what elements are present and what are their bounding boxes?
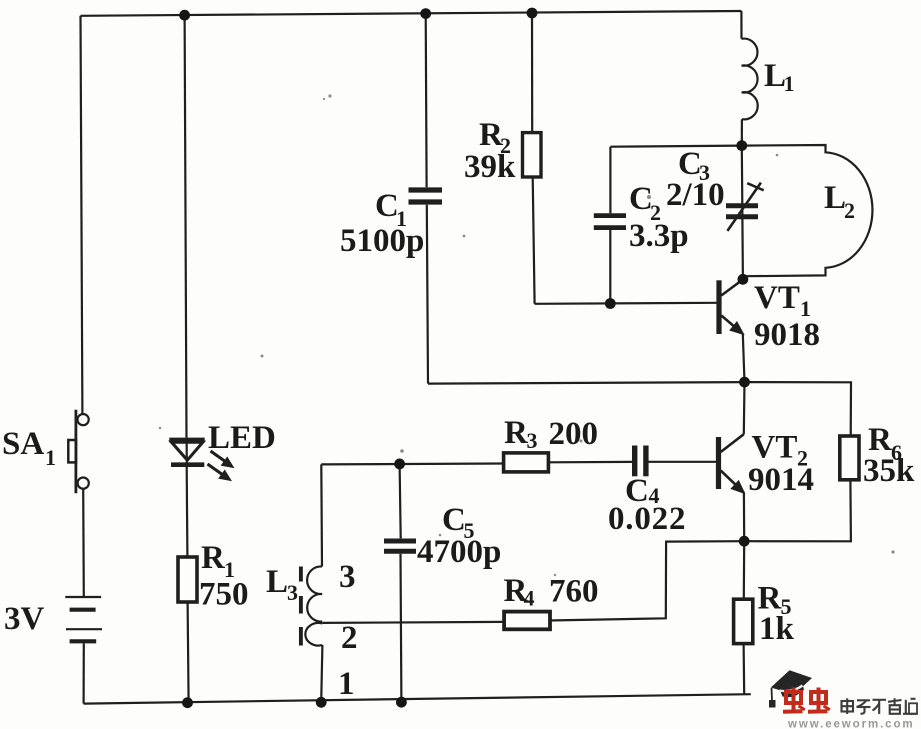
wire top rail corner to L1	[740, 11, 742, 39]
transistor VT2	[716, 382, 745, 493]
wire y146 line	[610, 146, 741, 147]
wire LED to R1	[186, 467, 189, 557]
svg-text:1: 1	[784, 71, 795, 96]
wire R3 to C4	[548, 461, 632, 464]
svg-text:2/10: 2/10	[666, 177, 725, 213]
svg-text:9018: 9018	[754, 317, 820, 353]
svg-text:760: 760	[549, 574, 599, 610]
watermark site name glyphs	[842, 698, 918, 714]
svg-text:VT: VT	[754, 280, 800, 316]
svg-text:2: 2	[844, 198, 855, 223]
battery B1 3V	[65, 597, 102, 641]
node R3 C5	[394, 459, 405, 470]
capacitor C1	[409, 190, 443, 202]
node rail R1	[182, 697, 193, 708]
svg-text:0.022: 0.022	[608, 501, 686, 537]
wire L3 bottom to rail	[321, 645, 322, 702]
wire top rail	[81, 11, 742, 16]
switch SA1	[68, 410, 88, 494]
wire tap2 line	[322, 622, 503, 623]
wire C2 top	[609, 147, 611, 214]
node base C2	[605, 298, 616, 309]
svg-text:1: 1	[45, 445, 56, 470]
resistor R4	[504, 612, 550, 630]
svg-text:39k: 39k	[464, 149, 516, 185]
loop antenna L2	[742, 145, 873, 279]
svg-text:200: 200	[549, 416, 599, 452]
wire left vertical upper	[81, 16, 83, 414]
watermark graduation cap	[769, 670, 812, 707]
resistor R6	[840, 436, 859, 480]
wire R6 bottom	[744, 480, 851, 542]
wire R1 to bottom rail	[188, 602, 189, 703]
svg-text:LED: LED	[208, 420, 276, 456]
resistor R5	[734, 599, 753, 643]
wire C4 to VT2 base	[649, 461, 717, 463]
wire L1 to node	[741, 119, 743, 145]
svg-text:R: R	[201, 540, 226, 576]
svg-text:1: 1	[338, 666, 355, 702]
node rail L3	[316, 697, 327, 708]
scan noise specks	[159, 94, 895, 576]
svg-text:5100p: 5100p	[340, 223, 424, 259]
node L1 bottom	[736, 140, 747, 151]
svg-text:3: 3	[339, 559, 356, 595]
wire R5 top	[743, 541, 746, 599]
svg-text:4700p: 4700p	[417, 534, 501, 570]
wire base line y303	[535, 303, 717, 304]
svg-text:C: C	[442, 502, 466, 538]
svg-text:35k: 35k	[863, 453, 915, 489]
svg-text:L: L	[266, 564, 288, 600]
svg-text:9014: 9014	[748, 462, 814, 498]
wire VT2 emitter down	[743, 493, 745, 542]
wire C1 branch vertical	[425, 14, 428, 188]
node rail C5	[396, 697, 407, 708]
svg-text:www.eeworm.com: www.eeworm.com	[787, 719, 915, 729]
node top rail R2	[527, 8, 538, 19]
svg-text:R: R	[504, 415, 529, 451]
svg-text:3: 3	[287, 580, 298, 605]
wire left loop vertical	[320, 464, 323, 566]
wire switch to battery	[82, 489, 85, 596]
svg-text:4: 4	[524, 586, 535, 611]
svg-text:1k: 1k	[759, 611, 795, 647]
wire VT1 emitter down	[743, 334, 745, 383]
transformer L3 winding	[305, 566, 322, 645]
svg-text:L: L	[824, 180, 846, 216]
resistor R1	[178, 557, 197, 602]
inductor L1	[742, 39, 758, 120]
transformer L3 core	[299, 567, 303, 646]
wire R2 branch vertical	[531, 13, 533, 133]
wire C2 bottom	[609, 230, 611, 304]
node top rail C1	[420, 8, 431, 19]
svg-text:VT: VT	[752, 430, 798, 466]
node top rail LED	[179, 10, 190, 21]
resistor R2	[523, 133, 542, 177]
trimmer capacitor C3	[726, 183, 764, 231]
capacitor C5	[384, 541, 416, 551]
node VT1 collector	[738, 274, 749, 285]
wire R5 to bottom rail	[742, 644, 745, 695]
wire battery to bottom rail	[82, 644, 84, 704]
svg-text:3: 3	[527, 428, 538, 453]
diode LED	[169, 440, 204, 465]
wire base line y463 left	[321, 462, 503, 465]
wire R4 to step	[548, 541, 744, 620]
node emitter y382	[739, 377, 750, 388]
svg-text:SA: SA	[2, 426, 44, 462]
capacitor C2	[594, 216, 626, 228]
capacitor C4	[635, 446, 646, 477]
wire R2 to base line	[533, 177, 535, 304]
svg-text:750: 750	[199, 577, 249, 613]
svg-text:2: 2	[341, 620, 358, 656]
transistor VT1	[716, 280, 743, 334]
wire C5 bottom	[399, 554, 402, 702]
wire C5 top	[400, 464, 401, 539]
watermark chongchong characters	[783, 688, 830, 712]
wire LED branch vertical	[185, 15, 187, 438]
node emitter y541	[739, 536, 750, 547]
resistor R3	[504, 453, 549, 472]
wire emitter horizontal y383	[428, 382, 745, 384]
svg-text:3.3p: 3.3p	[629, 218, 689, 254]
LED light arrows	[208, 451, 234, 481]
svg-text:3V: 3V	[4, 601, 45, 637]
wire C1 to emitter line	[427, 205, 428, 384]
wire C3 vertical	[742, 146, 743, 280]
wire node y382 to R6	[745, 382, 852, 436]
wire bottom rail	[84, 694, 751, 703]
